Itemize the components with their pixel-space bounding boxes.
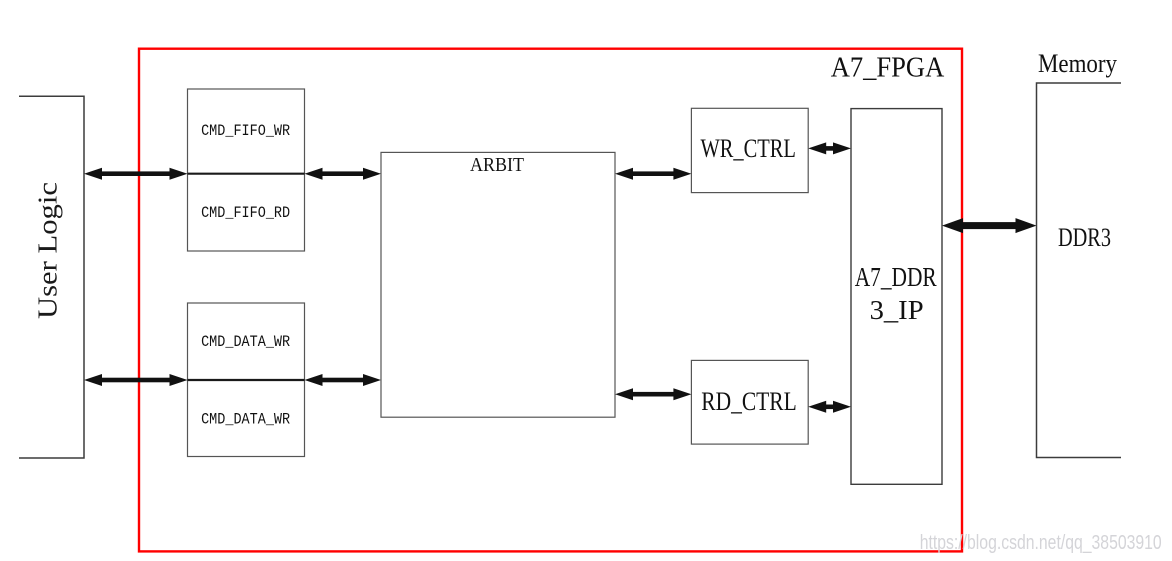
FPGA boundary (red rectangle) [139, 49, 962, 552]
svg-text:A7_FPGA: A7_FPGA [831, 53, 945, 84]
svg-text:A7_DDR: A7_DDR [855, 262, 937, 292]
arrow ARBIT <-> RD_CTRL [615, 388, 691, 400]
arrow WR_CTRL <-> A7_DDR3_IP [808, 142, 851, 154]
svg-text:ARBIT: ARBIT [470, 154, 524, 176]
svg-text:CMD_FIFO_RD: CMD_FIFO_RD [201, 204, 290, 222]
label CMD_DATA_WR (lower) [201, 411, 290, 429]
block CMD_DATA (two-cell box) [188, 303, 305, 457]
arrow A7_DDR3_IP <-> DDR3 (wide) [942, 218, 1037, 233]
block CMD_FIFO (two-cell box) [188, 89, 305, 251]
arrow User Logic <-> CMD_DATA [84, 374, 188, 386]
block ARBIT [381, 152, 615, 417]
svg-text:WR_CTRL: WR_CTRL [700, 134, 796, 163]
label A7_DDR (line 1) [855, 262, 937, 292]
label CMD_FIFO_RD [201, 204, 290, 222]
svg-text:https://blog.csdn.net/qq_38503: https://blog.csdn.net/qq_38503910 [920, 531, 1162, 554]
divider CMD_DATA [188, 379, 305, 381]
block RD_CTRL [691, 360, 808, 444]
watermark [920, 531, 1162, 554]
label DDR3 [1058, 223, 1111, 252]
block WR_CTRL [691, 108, 808, 192]
svg-text:RD_CTRL: RD_CTRL [701, 387, 797, 416]
block A7_DDR3_IP [851, 109, 942, 485]
label ARBIT [470, 154, 524, 176]
svg-text:CMD_DATA_WR: CMD_DATA_WR [201, 333, 290, 351]
arrow RD_CTRL <-> A7_DDR3_IP [808, 401, 851, 413]
divider CMD_FIFO [188, 173, 305, 175]
svg-text:User Logic: User Logic [33, 182, 63, 319]
label WR_CTRL [700, 134, 796, 163]
label User Logic (rotated) [33, 182, 63, 319]
label CMD_FIFO_WR [201, 122, 290, 140]
label RD_CTRL [701, 387, 797, 416]
arrow User Logic <-> CMD_FIFO [84, 168, 188, 180]
block User Logic (open-left bracket box) [19, 96, 84, 458]
svg-text:DDR3: DDR3 [1058, 223, 1111, 252]
block DDR3 / Memory (open-right bracket box) [1037, 83, 1122, 458]
label Memory [1038, 49, 1117, 78]
label A7_FPGA [831, 53, 945, 84]
label CMD_DATA_WR (upper) [201, 333, 290, 351]
svg-text:CMD_FIFO_WR: CMD_FIFO_WR [201, 122, 290, 140]
label 3_IP (line 2) [870, 295, 924, 325]
svg-text:CMD_DATA_WR: CMD_DATA_WR [201, 411, 290, 429]
svg-text:3_IP: 3_IP [870, 295, 924, 325]
arrow CMD_FIFO <-> ARBIT [305, 168, 382, 180]
arrow CMD_DATA <-> ARBIT [305, 374, 382, 386]
arrow ARBIT <-> WR_CTRL [615, 168, 691, 180]
svg-text:Memory: Memory [1038, 49, 1117, 78]
